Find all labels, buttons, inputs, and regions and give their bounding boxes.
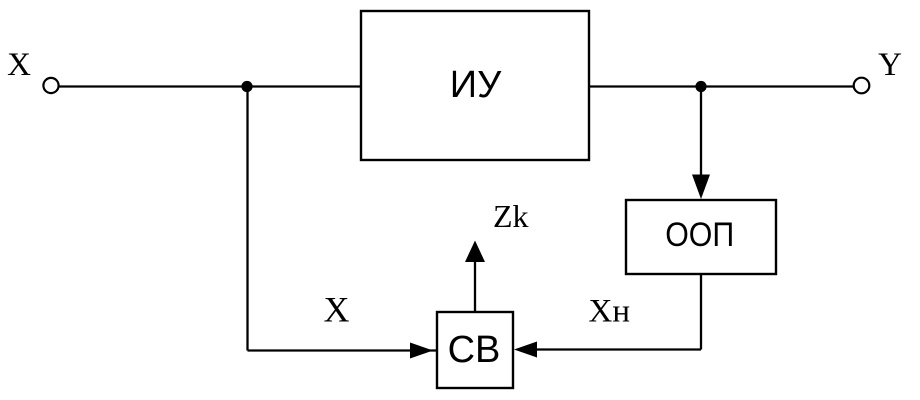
svg-text:Zk: Zk bbox=[493, 198, 529, 234]
terminal X input bbox=[43, 78, 58, 93]
svg-text:X: X bbox=[324, 290, 350, 330]
arrowhead Zk output bbox=[465, 241, 485, 263]
block ООП bbox=[626, 200, 776, 274]
svg-text:СВ: СВ bbox=[448, 329, 501, 371]
svg-text:X: X bbox=[7, 47, 31, 83]
wire block ИУ to output Y bbox=[589, 85, 854, 87]
svg-text:Хн: Хн bbox=[589, 294, 631, 330]
wire junction A down bbox=[246, 87, 248, 351]
svg-text:Y: Y bbox=[878, 47, 902, 83]
terminal Y output bbox=[854, 78, 870, 94]
junction node A bbox=[241, 81, 252, 92]
junction node B bbox=[695, 81, 706, 92]
arrowhead into СВ left side bbox=[410, 343, 433, 359]
arrowhead into ООП bbox=[692, 175, 710, 200]
wire ООП down bbox=[700, 274, 702, 350]
arrowhead into СВ right side bbox=[514, 342, 537, 358]
wire X branch to СВ bbox=[248, 349, 438, 351]
wire input X to block ИУ bbox=[59, 85, 361, 87]
wire junction B down to ООП bbox=[700, 87, 702, 177]
wire ООП to СВ (feedback Хн) bbox=[534, 348, 701, 350]
svg-text:ООП: ООП bbox=[665, 216, 734, 254]
wire СВ up to Zk bbox=[474, 262, 476, 312]
block ИУ bbox=[361, 11, 589, 160]
svg-text:ИУ: ИУ bbox=[450, 64, 502, 106]
block СВ bbox=[437, 312, 513, 388]
